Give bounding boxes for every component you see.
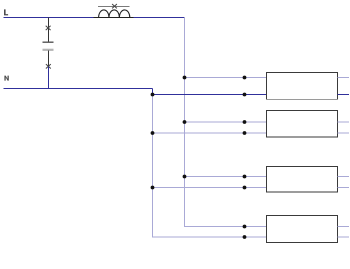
capacitor C1 top pin-x mark: [46, 26, 51, 30]
junction N bus box3: [151, 186, 155, 190]
wire L vertical bus: [185, 18, 267, 227]
wire box1 output lower: [338, 94, 350, 96]
wire box3 output lower: [338, 187, 350, 189]
wire box3 output upper: [338, 176, 350, 178]
inductor core bar: [98, 6, 130, 8]
wire branch box3 upper: [185, 176, 267, 178]
junction L bus box3: [183, 175, 187, 179]
junction pin box3 upper: [243, 175, 247, 179]
junction pin box4 lower: [243, 235, 247, 239]
inductor L1 arcs: [99, 10, 130, 18]
junction L bus box1: [183, 76, 187, 80]
wire L line: [4, 17, 185, 19]
wire branch box3 lower: [153, 187, 267, 189]
inductor lead (black segment of L line): [94, 17, 134, 19]
wire N vertical bus: [153, 95, 267, 238]
node N label: [4, 76, 8, 81]
capacitor C1 bottom lead: [48, 51, 50, 67]
junction pin box1 lower: [243, 93, 247, 97]
wire box2 output upper: [338, 121, 350, 123]
wire box4 output upper: [338, 226, 350, 228]
junction pin box1 upper: [243, 76, 247, 80]
capacitor C1 top lead: [48, 18, 50, 42]
capacitor C1 plate 2: [43, 49, 54, 51]
junction pin box2 upper: [243, 120, 247, 124]
ballast box 1: [266, 73, 338, 100]
wire N step down: [152, 89, 154, 95]
node L label: [4, 9, 8, 15]
wire branch box2 upper: [185, 121, 267, 123]
capacitor C1 plate 1: [43, 41, 54, 43]
junction N bus box1: [151, 93, 155, 97]
wire capacitor to N: [48, 67, 50, 89]
junction pin box3 lower: [243, 186, 247, 190]
junction N bus box2: [151, 131, 155, 135]
ballast box 2: [267, 111, 338, 138]
ballast box 4: [267, 216, 338, 243]
junction pin box2 lower: [243, 131, 247, 135]
wire N line: [4, 88, 153, 90]
wire box4 output lower: [338, 236, 350, 238]
capacitor C1 bottom pin-x mark: [46, 64, 51, 68]
junction pin box4 upper: [243, 225, 247, 229]
inductor pin-x mark: [112, 4, 117, 8]
wire branch box2 lower: [153, 132, 267, 134]
wire branch box1 lower: [153, 94, 267, 96]
ballast box 3: [267, 167, 338, 193]
wire box2 output lower: [338, 132, 350, 134]
wire box1 output upper: [338, 77, 350, 79]
junction L bus box2: [183, 120, 187, 124]
wire branch box1 upper: [185, 77, 267, 79]
